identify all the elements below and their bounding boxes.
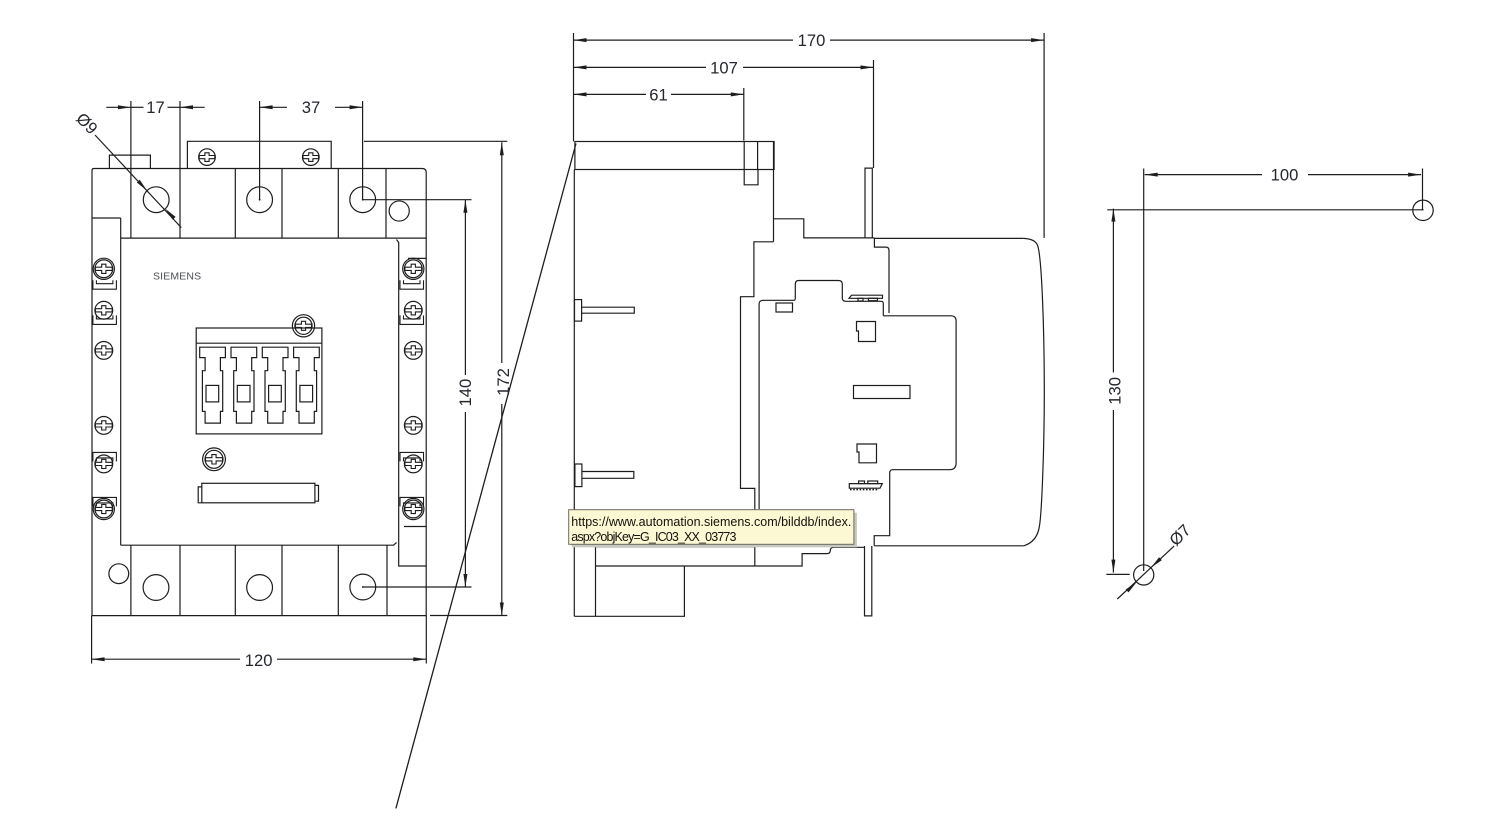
svg-text:61: 61 [649,85,667,104]
front view: right washer bracket 1 [400,280,424,289]
svg-text:aspx?objKey=G_IC03_XX_03773: aspx?objKey=G_IC03_XX_03773 [571,530,736,544]
dimension 61: value [649,85,667,104]
side view: lower rail clip [575,464,634,487]
front view: front panel bottom edge [121,543,397,546]
front view: lower label bar [198,483,318,503]
dimension 140: leader bottom [363,586,472,588]
front view: small hole top-right corner [389,201,409,221]
front view: left washer bracket 2 [93,315,117,324]
front view: left clamp screw 5 [95,455,113,473]
drilling plan: horizontal centre line [1107,209,1423,211]
dimension 170: value [798,31,826,50]
front view: right clamp screw 2 [404,301,422,319]
tooltip: shadow [572,513,857,548]
dimension 140: value [456,379,475,407]
dimension 120: value [245,651,273,670]
front view: bottom terminal divider 4 [281,545,283,615]
front view: cover plate screw left [199,149,216,166]
side view: upper rail clip [575,300,635,322]
dimension 172: extension top [364,140,507,142]
dimension 17: value [146,98,164,117]
dimension 107: value [710,58,738,77]
dimension 170: dimension line [574,38,1045,42]
front view: contact pole 3 [262,347,288,423]
front view: contact pole 2 [231,347,257,423]
side view: base block [574,547,864,617]
svg-text:100: 100 [1271,166,1299,185]
front view: right washer bracket 4 [400,497,424,506]
svg-text:140: 140 [456,379,475,407]
dimension 172: extension bottom [430,615,507,617]
side view: column shoulder detail [776,303,793,312]
dimension 107: dimension line [574,65,874,69]
front view: right column bottom ledge [404,526,426,528]
front view: right clamp screw 5 [404,455,422,473]
drilling plan: vertical centre line [1143,169,1145,572]
front view: top terminal divider 4 [281,169,283,239]
front view: bottom terminal divider 3 [234,545,236,615]
dimension 37: extension lines [260,101,363,200]
svg-text:130: 130 [1105,377,1124,405]
front view: contact pole 4 [294,347,320,423]
dimension 100: value [1271,166,1299,185]
dimension 100: extension line right [1422,169,1424,211]
tooltip: box [569,510,854,545]
front view: central block screw bottom-left [203,448,226,471]
side view: lower comb [849,481,882,490]
svg-text:120: 120 [245,651,273,670]
side view: left edge [573,170,575,617]
front view: right washer bracket 2 [400,315,424,324]
dimension 130: value [1105,377,1124,405]
front view: body outline [92,169,426,616]
front view: left column inner edge [120,218,122,545]
front view: mounting hole bottom-left [143,575,169,601]
front view: contact pole 1 [200,347,226,423]
side view: right section top edge [874,237,1023,239]
front view: central block top bar [196,342,322,344]
front view: right column inner edge [397,240,427,567]
front view: right clamp screw 6 [403,498,424,519]
side view: top block [575,142,774,170]
side view: center column hump [759,281,883,510]
svg-text:107: 107 [710,58,738,77]
dimension 140: leader top [363,199,472,201]
front view: central block outline [196,328,322,434]
front view: mounting hole top-left (Ø9) [143,187,169,213]
svg-text:SIEMENS: SIEMENS [153,271,201,283]
front view: left clamp screw 2 [95,301,113,319]
dimension 107: extension line [873,60,875,168]
side view: top pin [865,168,872,238]
front view: small hole bottom-left [109,564,129,584]
front view: left washer bracket 1 [93,280,117,289]
dimension Ø9: leader line [95,135,181,228]
front view: right clamp screw 1 [403,258,424,279]
side view: right section outline [874,238,956,545]
svg-text:170: 170 [798,31,826,50]
front view: cover plate screw right [303,149,320,166]
front view: mounting hole bottom-right [350,574,376,600]
dimension 61: extension line [743,88,745,141]
svg-text:https://www.automation.siemens: https://www.automation.siemens.com/bildd… [571,515,851,529]
side view: right section bottom edge [874,545,1024,547]
front view: top terminal divider 1 [130,169,132,239]
front view: right washer bracket 3 [400,452,424,461]
section leader diagonal line [396,144,576,809]
drilling plan: hole top-right [1413,200,1433,220]
svg-text:17: 17 [146,98,164,117]
side view: coil slot [854,386,911,399]
tooltip: url line 2 [571,530,736,544]
front view: left column step [92,217,121,219]
front view: right clamp screw 4 [404,417,422,435]
dimension 61: dimension line [574,92,744,96]
dimension Ø9: value [72,109,101,138]
tooltip: url line 1 [571,515,851,529]
front view: bottom terminal divider 2 [179,545,181,615]
dimension 120: extension lines [92,616,427,664]
front view: top terminal divider 5 [337,169,339,239]
front view: top terminal row bottom edge [121,237,427,239]
side view: upper small square [857,322,876,342]
front view: bottom terminal divider 1 [130,545,132,615]
front view: central block screw top-right [292,315,314,337]
front view: bottom terminal divider 6 [386,545,388,615]
dimension 170: extension lines [574,33,1045,238]
front view: SIEMENS logo [153,271,201,283]
front view: mounting hole top-right [350,187,376,213]
front view: left clamp screw 6 [93,498,114,519]
dimension 130: dimension line [1111,209,1115,573]
front view: right column top ledge [408,257,426,259]
dimension 37: value [302,98,320,117]
drilling plan: hole bottom-left [1134,565,1154,585]
side view: upper comb [849,295,883,301]
side view: bottom pin [865,546,872,616]
svg-text:172: 172 [494,368,513,396]
front view: top terminal cover plate [187,141,331,168]
dimension 130: extension bottom [1106,573,1129,575]
front view: left clamp screw 1 [93,258,114,279]
svg-text:37: 37 [302,98,320,117]
dimension 100: dimension line [1145,173,1421,177]
dimension Ø7: value [1165,521,1194,550]
front view: mounting hole top-middle [247,187,273,213]
dimension 37: dimension line [260,105,363,109]
side view: top block inner verticals [744,142,757,170]
dimension 17: dimension line [106,105,204,109]
front view: top terminal divider 3 [234,169,236,239]
front view: left washer bracket 4 [93,497,117,506]
front view: left washer bracket 3 [93,452,117,461]
side view: right section curved edge [1024,238,1045,545]
side view: upper right profile [741,142,875,567]
front view: left clamp screw 4 [95,417,113,435]
dimension Ø7: leader line [1117,546,1174,599]
front view: top mounting tab [109,155,150,168]
dimension 17: extension lines [131,101,180,169]
side view: lower small square [857,444,877,463]
front view: top terminal divider 6 [385,169,387,239]
front view: mounting hole bottom-middle [247,575,273,601]
side view: tab below top block [744,170,758,185]
front view: top terminal divider 2 [179,169,181,239]
dimension 172: dimension line [500,142,504,615]
front view: right clamp screw 3 [404,342,422,360]
front view: left clamp screw 3 [95,342,113,360]
dimension 120: dimension line [92,657,427,661]
dimension 172: value [494,368,513,396]
dimension 140: dimension line [463,200,467,587]
front view: bottom terminal divider 5 [337,545,339,615]
